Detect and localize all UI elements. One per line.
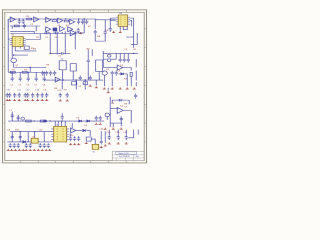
red T cf5	[26, 99, 29, 101]
wire mid drop1	[56, 33, 58, 54]
red T h r2	[73, 143, 76, 145]
wire topleft row2	[10, 25, 40, 27]
sheet border inner frame	[5, 12, 144, 160]
capacitor Ch9	[69, 136, 72, 141]
red T cf11	[66, 99, 69, 101]
IC U1 dip8	[12, 37, 23, 47]
wire g h2	[110, 122, 122, 124]
op-amp U2E	[70, 30, 76, 36]
wire fb rect U3	[95, 20, 105, 31]
capacitor C45	[115, 71, 118, 76]
node junction r1	[133, 53, 135, 54]
comparator block U2E	[53, 28, 58, 32]
IC U3 dip10	[54, 126, 67, 142]
transistor Q3	[102, 71, 107, 75]
wire h vert28	[27, 132, 29, 142]
capacitor Ch12	[108, 135, 111, 140]
wire d pair2	[91, 49, 93, 56]
wire r c43 top	[127, 53, 129, 57]
wire h top rail	[10, 131, 52, 133]
resistor R02	[14, 25, 19, 27]
wire d drop99	[98, 71, 100, 80]
op-amp U2A	[46, 17, 51, 22]
capacitor C11	[77, 19, 80, 24]
red T cf3	[18, 99, 21, 101]
wire d mid h57	[14, 54, 29, 56]
wire e drop4	[95, 80, 97, 85]
relay RL1 box	[59, 61, 66, 70]
svg-text:C13: C13	[35, 90, 39, 92]
capacitor Ch7	[25, 143, 28, 148]
wire d branch	[29, 67, 31, 72]
red T r mid3	[119, 87, 122, 89]
wire h vert44	[43, 132, 45, 142]
wire r h2	[103, 58, 107, 60]
red T h x30	[29, 149, 32, 151]
wire q1 base	[11, 58, 13, 59]
red T h f3	[125, 142, 128, 144]
capacitor C13	[85, 19, 88, 24]
capacitor Cf10	[59, 93, 62, 98]
wire h r v2	[104, 131, 106, 142]
comparator U10	[86, 137, 91, 141]
red T r mid2	[111, 87, 114, 89]
wire e stub2	[19, 72, 21, 76]
wire h far right2	[137, 130, 139, 135]
wire a junction up	[83, 19, 85, 29]
wire d8 wires	[118, 73, 120, 75]
diode D7	[23, 141, 26, 143]
capacitor Ch8b	[39, 143, 42, 148]
wire h vert12	[11, 132, 13, 142]
red T cf0	[6, 99, 9, 101]
op-amp U7	[117, 108, 123, 114]
wire r c42 top	[123, 53, 125, 57]
resistor R12	[22, 71, 27, 73]
wire topleft vert	[7, 19, 9, 31]
wire h far right	[128, 130, 134, 138]
capacitor Ch11	[100, 139, 103, 144]
wire mid drop join	[49, 33, 51, 53]
wire b to opampA	[61, 32, 63, 34]
wire r c41 top	[119, 53, 121, 57]
wire u9 to diode	[76, 129, 83, 131]
wire e drop1	[61, 80, 63, 89]
wire fb rect bottom	[95, 34, 105, 41]
page background	[0, 0, 149, 198]
resistor R01	[27, 18, 32, 20]
resistor R21 box	[64, 20, 69, 22]
red T g6	[99, 123, 102, 125]
capacitor Ch5	[13, 143, 16, 148]
node junction d1	[29, 67, 31, 68]
wire right mid	[126, 36, 134, 38]
red T r mid5	[133, 87, 136, 89]
capacitor C24	[35, 76, 38, 81]
red T h x49.5	[48, 149, 51, 151]
red T cf4	[24, 99, 27, 101]
wire u1 bottom	[15, 46, 36, 51]
resistor Rg2	[40, 120, 46, 122]
red T h x38	[37, 149, 40, 151]
voltage regulator VR1	[31, 138, 38, 143]
wire h vert20	[19, 132, 21, 142]
red T h x34	[33, 149, 36, 151]
resistor R27 below	[72, 82, 77, 85]
capacitor C21	[11, 76, 14, 81]
capacitor Cf2	[13, 93, 16, 98]
red T r mid4	[126, 87, 129, 89]
red T h x46	[45, 149, 48, 151]
wire h main	[7, 141, 31, 143]
diode D2	[79, 120, 82, 122]
diode D9	[83, 129, 86, 131]
red T cf2	[13, 99, 16, 101]
diode D10	[44, 120, 47, 122]
wire ch14 top	[125, 130, 127, 135]
op-amp U2F	[60, 26, 65, 31]
red T h f1	[108, 142, 111, 144]
red T g2	[112, 128, 115, 130]
wire top bus	[8, 18, 96, 20]
capacitor C12	[81, 19, 84, 24]
wire e drop2	[75, 80, 77, 89]
red T g5	[95, 123, 98, 125]
op-amp U2G	[68, 27, 73, 32]
capacitor Cg3	[17, 115, 20, 120]
relay K1	[92, 144, 99, 149]
resistor R40	[130, 72, 132, 76]
capacitor C02	[22, 19, 25, 24]
wire ic2 left feed2	[110, 19, 116, 21]
wire c44 stub	[111, 76, 113, 87]
capacitor Cd3	[49, 71, 52, 76]
wire ic2 pin drop1	[119, 26, 121, 30]
red T cf8	[41, 99, 44, 101]
capacitor Cg8	[117, 99, 123, 102]
IC U4 dip8	[118, 15, 128, 26]
capacitor Ch10	[73, 136, 76, 141]
wire e bus left	[8, 71, 48, 73]
wire e bus mid	[44, 79, 103, 81]
capacitor C41	[119, 58, 122, 63]
red T h x42	[41, 149, 44, 151]
wire ic2 right top	[130, 18, 134, 48]
red T h r1	[69, 143, 72, 145]
red T e1	[95, 86, 98, 88]
node junction g1	[33, 120, 35, 121]
capacitor Cd1	[41, 71, 44, 76]
wire q3 down	[104, 75, 106, 86]
node junction d2	[49, 53, 51, 54]
wire to IC2	[105, 19, 116, 21]
capacitor Ch8c	[43, 143, 46, 148]
relay contact circle a	[108, 54, 111, 57]
node junction g7	[61, 120, 63, 121]
red T cf1	[8, 99, 11, 101]
capacitor C32	[104, 30, 107, 35]
wire d9 out	[86, 130, 90, 136]
connector J3 box	[96, 60, 103, 71]
wire r h2b	[111, 53, 116, 59]
wire ic2 right 2	[130, 20, 132, 26]
capacitor Cg9	[134, 94, 137, 99]
red T cf7	[36, 99, 39, 101]
node junction top bus c	[78, 18, 80, 19]
capacitor C01	[18, 19, 21, 24]
wire u5 out	[123, 68, 132, 71]
capacitor Cg1	[120, 117, 123, 122]
red T a1	[79, 32, 82, 34]
relay contact circle b	[108, 59, 111, 62]
op-amp U6A	[55, 77, 60, 82]
wire q1 tail	[14, 63, 47, 68]
capacitor C44	[111, 71, 114, 76]
svg-text:C11: C11	[17, 90, 21, 92]
capacitor C22	[19, 76, 22, 81]
wire g loop	[112, 100, 129, 104]
wire g out	[123, 110, 131, 123]
capacitor C25	[43, 76, 46, 81]
capacitor C18	[77, 28, 80, 33]
capacitor Cf0	[6, 93, 9, 98]
wire r h3	[103, 66, 117, 68]
capacitor Cf1	[8, 93, 11, 98]
wire left vert	[11, 46, 13, 57]
capacitor C40	[109, 27, 112, 32]
node junction top bus b	[83, 18, 85, 19]
capacitor Ch8d	[47, 143, 50, 148]
wire g stub2	[120, 117, 122, 127]
wire g bus	[8, 120, 104, 122]
red T e7	[89, 85, 92, 87]
capacitor Cd4	[53, 71, 56, 76]
wire h r v1	[100, 131, 102, 139]
capacitor C27	[79, 76, 82, 81]
red T cf6	[31, 99, 34, 101]
capacitor Ch14	[125, 135, 128, 140]
wire r h1	[103, 52, 118, 54]
wire h main2	[38, 141, 53, 143]
red T h r4	[104, 144, 107, 146]
node junction e2	[27, 72, 29, 73]
capacitor C31	[94, 30, 97, 35]
capacitor Cf4	[24, 93, 27, 98]
wire g stub1	[112, 123, 114, 127]
wire ch13 top	[117, 130, 119, 135]
diode D3	[87, 120, 90, 122]
capacitor Ch10b	[77, 136, 80, 141]
wire u1 right c	[26, 34, 41, 40]
resistor R28 below	[83, 82, 88, 85]
op-amp U9	[71, 128, 76, 133]
capacitor C14	[59, 52, 65, 55]
wire r right vert2	[135, 71, 137, 81]
capacitor Ch4	[9, 143, 12, 148]
wire u9 b	[70, 134, 72, 136]
op-amp U2C	[70, 19, 75, 24]
red T ic2 pin	[119, 31, 122, 33]
wire mid drop2	[64, 31, 66, 33]
wire d pair1	[87, 49, 89, 58]
op-amp U5	[117, 65, 123, 70]
wire u1 right b	[10, 33, 46, 35]
diode D8	[121, 73, 124, 75]
wire u1 bottom stub	[19, 46, 21, 48]
node junction e5	[84, 79, 86, 80]
wire g stub x61.5	[61, 121, 63, 126]
red T r mid1	[103, 87, 106, 89]
capacitor Cg2	[11, 113, 14, 118]
wire u1 right a	[10, 31, 34, 33]
capacitor C23	[27, 76, 30, 81]
transistor Q4	[105, 113, 109, 117]
capacitor Cf6	[31, 93, 34, 98]
wire g stub x55	[54, 121, 56, 126]
node junction top bus a	[65, 18, 67, 19]
red T h x23	[22, 149, 25, 151]
node junction h1	[19, 131, 21, 132]
wire r top join	[118, 52, 138, 54]
wire d drop76	[72, 71, 74, 80]
capacitor Cg4	[61, 115, 64, 120]
capacitor C2	[53, 32, 59, 35]
wire g comp1	[11, 112, 13, 121]
capacitor Ch8	[29, 143, 32, 148]
node junction e6	[75, 79, 77, 80]
node junction b1	[61, 32, 63, 33]
capacitor Cf11	[66, 93, 69, 98]
wire g comp2	[17, 115, 19, 121]
capacitor C43	[127, 58, 130, 63]
red T h x8	[7, 149, 10, 151]
red T h r5	[85, 142, 88, 144]
wire cg4 top	[61, 113, 63, 115]
capacitor C28	[89, 76, 92, 81]
op-amp U0A	[10, 17, 15, 22]
wire ch12 top	[108, 130, 110, 135]
node junction e1	[11, 72, 13, 73]
wire e stub1	[11, 72, 13, 76]
wire g h1	[110, 107, 118, 109]
red T cf9	[45, 99, 48, 101]
red T h f2	[117, 142, 120, 144]
wire mid drop4	[74, 31, 76, 49]
wire f right	[107, 88, 109, 91]
capacitor Cf7	[36, 93, 39, 98]
node junction e3	[43, 72, 45, 73]
red T g4	[107, 91, 110, 93]
connector circle J2	[21, 117, 25, 120]
wire r vert5	[135, 82, 137, 86]
wire e stub4	[35, 72, 37, 76]
wire e drop3	[84, 80, 86, 89]
node junction e4	[62, 79, 64, 80]
svg-text:Vapex 4-CD: Vapex 4-CD	[118, 153, 129, 155]
wire opampE out	[76, 29, 84, 33]
wire r40 down	[130, 76, 132, 86]
wire u1 left down	[8, 39, 10, 72]
node junction q1	[13, 54, 15, 55]
wire ic2 left vert	[109, 18, 111, 27]
wire g stub x65	[64, 121, 66, 126]
wire d mid h	[50, 52, 60, 54]
node junction g2	[49, 120, 51, 121]
red T h x11.5	[10, 149, 13, 151]
red T g1	[104, 128, 107, 130]
wire d mid h2	[65, 52, 70, 54]
red T h r2b	[77, 143, 80, 145]
capacitor C1	[44, 32, 50, 35]
wire mid drop3	[64, 33, 66, 54]
wire tl drop2	[35, 26, 37, 31]
capacitor C42	[123, 58, 126, 63]
capacitor Cg6	[99, 116, 102, 121]
capacitor Cf5	[26, 93, 29, 98]
wire r right vert	[135, 59, 137, 67]
op-amp U2D	[46, 27, 51, 32]
wire tl drop1	[11, 26, 13, 29]
wire g stub x58	[57, 121, 59, 126]
svg-text:Rev: Rev	[136, 156, 139, 158]
wire h vert34	[34, 132, 36, 138]
capacitor C03	[23, 24, 26, 29]
capacitor Ch1	[11, 135, 14, 140]
resistor R50 below U1	[24, 46, 29, 49]
wire u1 left up	[7, 19, 9, 39]
wire e stub5	[43, 72, 45, 76]
op-amp U0B	[34, 17, 39, 22]
wire row2 bus	[44, 32, 76, 34]
node junction h2	[34, 131, 36, 132]
op-amp U2B	[58, 18, 63, 23]
wire ic2 bottom loop	[123, 26, 127, 29]
red T ic2 pin2	[112, 31, 115, 33]
red T h r3	[100, 146, 103, 148]
wire d pair3	[87, 63, 89, 80]
capacitor C15	[87, 58, 90, 63]
capacitor Ch6	[17, 143, 20, 148]
red T g3	[120, 128, 123, 130]
resistor R11	[10, 71, 15, 73]
wire g vert	[109, 97, 111, 127]
svg-text:C12: C12	[26, 90, 30, 92]
frame zone tick marks	[3, 10, 147, 163]
wire e stub3	[27, 72, 29, 76]
wire q4 stub	[106, 117, 108, 120]
red T h x26	[25, 149, 28, 151]
wire right edge L	[131, 33, 137, 44]
wire ic2 left feed1	[110, 17, 116, 19]
svg-text:C10: C10	[6, 90, 10, 92]
wire g stub u9	[71, 123, 73, 128]
wire r vert1	[102, 51, 104, 67]
resistor Rg1	[26, 120, 32, 122]
svg-text:K2: K2	[61, 59, 63, 61]
relay RL2 box	[70, 64, 76, 71]
capacitor Cf8	[41, 93, 44, 98]
resistor R20 series	[52, 20, 57, 22]
capacitor Ch2	[19, 135, 22, 140]
capacitor Cf3	[18, 93, 21, 98]
sheet border outer frame	[3, 10, 147, 163]
capacitor Cf9	[45, 93, 48, 98]
svg-text:Sch 970A-05: Sch 970A-05	[119, 155, 130, 158]
wire d8 out	[124, 74, 127, 86]
node junction tl1	[18, 18, 20, 19]
red T h x15	[14, 149, 17, 151]
transistor Q1	[11, 58, 17, 63]
